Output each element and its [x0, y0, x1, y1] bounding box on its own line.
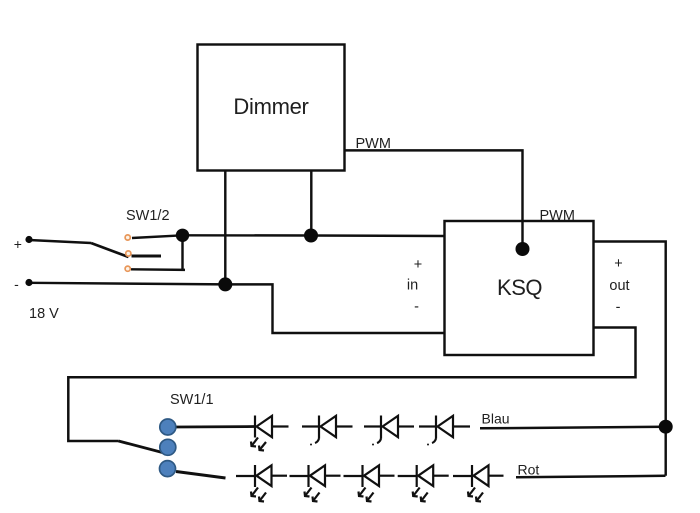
svg-text:out: out: [609, 278, 629, 294]
svg-text:-: -: [616, 300, 621, 316]
svg-text:in: in: [407, 278, 418, 294]
svg-text:-: -: [14, 276, 19, 292]
svg-text:KSQ: KSQ: [497, 275, 542, 300]
svg-text:Rot: Rot: [518, 462, 540, 478]
svg-text:+: +: [14, 236, 22, 252]
svg-text:SW1/1: SW1/1: [170, 392, 214, 408]
svg-text:+: +: [614, 256, 622, 272]
svg-text:Dimmer: Dimmer: [233, 94, 308, 119]
svg-text:PWM: PWM: [540, 208, 575, 224]
svg-text:SW1/2: SW1/2: [126, 208, 170, 224]
svg-text:+: +: [414, 257, 422, 273]
svg-text:PWM: PWM: [356, 136, 391, 152]
svg-text:18 V: 18 V: [29, 306, 59, 322]
svg-text:-: -: [414, 299, 419, 315]
svg-text:Blau: Blau: [482, 411, 510, 427]
